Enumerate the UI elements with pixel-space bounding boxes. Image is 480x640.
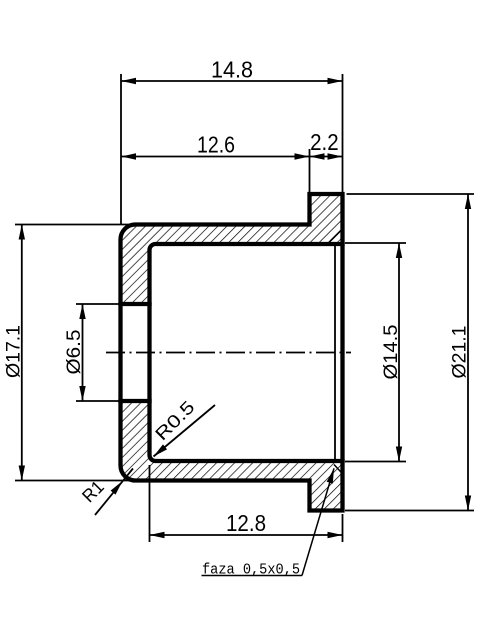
- arrow 21.1 top: [465, 194, 471, 209]
- arrow 2.2 left: [310, 153, 325, 159]
- centerline (axis): [106, 352, 351, 354]
- chamfer diagonal top: [329, 230, 342, 243]
- chamfer diagonal bottom: [334, 465, 342, 474]
- svg-text:12.6: 12.6: [197, 132, 235, 158]
- dimension diameter 6.5 line: [82, 304, 84, 401]
- bore opening edge at right face: [340, 242, 344, 463]
- svg-text:Ø6.5: Ø6.5: [64, 330, 85, 375]
- bore shoulder edge circle: [147, 302, 151, 403]
- arrow 6.5 top: [79, 304, 85, 319]
- leader R1 arrow: [111, 481, 123, 495]
- arrow 6.5 bottom: [79, 386, 85, 401]
- bore opening edge at left face: [118, 302, 122, 403]
- faza leader line: [302, 468, 334, 575]
- arrow 12.6 right: [295, 153, 310, 159]
- arrow 17.1 top: [19, 225, 25, 240]
- extension line diameter 21.1 top: [347, 193, 475, 195]
- extension line flange step: [309, 149, 311, 193]
- extension line left face: [120, 74, 122, 224]
- extension line diameter 6.5 bottom: [76, 400, 121, 402]
- dimension 12.8 line: [150, 534, 343, 536]
- extension line right face bottom: [342, 514, 344, 542]
- dimension diameter 17.1 line: [21, 225, 23, 481]
- faza leader arrow: [327, 468, 334, 483]
- extension line diameter 14.5 top: [345, 242, 406, 244]
- part cross-section upper half (hatched, flanged bushing): [121, 194, 343, 304]
- svg-text:2.2: 2.2: [310, 129, 339, 155]
- svg-text:Ø17.1: Ø17.1: [4, 325, 25, 378]
- extension line diameter 14.5 bottom: [345, 461, 406, 463]
- arrow 14.5 bottom: [396, 447, 402, 462]
- svg-text:12.8: 12.8: [226, 510, 266, 536]
- arrow 12.6 left: [121, 153, 136, 159]
- svg-text:Ø14.5: Ø14.5: [381, 325, 402, 380]
- faza note underline: [202, 575, 303, 577]
- arrow 14.5 top: [396, 243, 402, 258]
- extension line diameter 6.5 top: [76, 303, 121, 305]
- dimension diameter 14.5 line: [398, 243, 400, 462]
- arrow 12.8 right: [328, 532, 343, 538]
- arrow 12.8 left: [150, 532, 165, 538]
- arrow 2.2 right: [328, 153, 343, 159]
- extension line right face: [342, 74, 344, 193]
- part cross-section lower half (hatched, flanged bushing): [121, 401, 343, 511]
- leader R0.5 arrow: [154, 444, 168, 456]
- chamfer edge line across bore: [334, 244, 336, 461]
- arrow 17.1 bottom: [19, 466, 25, 481]
- extension line diameter 17.1 bottom: [15, 480, 137, 482]
- extension line diameter 21.1 bottom: [345, 510, 474, 512]
- dimension 12.6 line: [121, 156, 310, 158]
- extension line bore shoulder: [149, 465, 151, 542]
- svg-text:14.8: 14.8: [211, 57, 253, 83]
- arrow 14.8 right: [328, 78, 343, 84]
- arrow 21.1 bottom: [465, 496, 471, 511]
- dimension 14.8 line: [121, 80, 343, 82]
- leader R0.5 line: [154, 405, 216, 457]
- dimension diameter 21.1 line: [467, 194, 469, 511]
- svg-text:Ø21.1: Ø21.1: [450, 326, 471, 379]
- dimension 2.2 line: [310, 156, 343, 158]
- extension line diameter 17.1 top: [15, 224, 137, 226]
- arrow 14.8 left: [121, 78, 136, 84]
- leader R1 line: [95, 469, 133, 516]
